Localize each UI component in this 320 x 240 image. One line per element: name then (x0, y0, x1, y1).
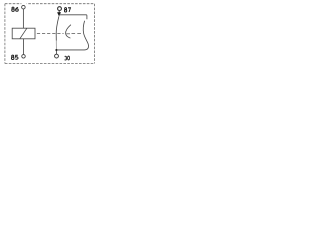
rest blade hanging from triangle (56, 16, 59, 40)
actuator coupling arc (66, 25, 71, 38)
label 87 (64, 8, 70, 12)
blade B with contact gap and rounded corner to 30 (56, 21, 88, 50)
87 stem (58, 11, 60, 13)
actuator dash-dot line (37, 32, 82, 34)
terminal 30 circle (55, 54, 59, 58)
junction dot node 30 (55, 49, 57, 51)
87 lead line with corner stub (59, 15, 87, 19)
label 85 (11, 55, 18, 59)
wire 86 to coil (22, 9, 24, 28)
border gap over terminal 86 (21, 3, 26, 5)
terminal 86 circle (22, 5, 26, 9)
terminal 85 circle (22, 55, 26, 59)
87 fixed contact triangle (57, 12, 61, 16)
terminal 87 circle (58, 7, 62, 11)
wire coil to 85 (23, 39, 25, 55)
relay body dashed border (5, 4, 95, 64)
hanging line faint lower part (55, 41, 57, 50)
coil diagonal (20, 28, 27, 39)
coil K1 rectangle (12, 28, 35, 39)
label 86 (12, 7, 19, 11)
stem to terminal 30 (55, 51, 57, 54)
label 30 (65, 56, 70, 60)
actuator tick inside arc (66, 33, 70, 35)
